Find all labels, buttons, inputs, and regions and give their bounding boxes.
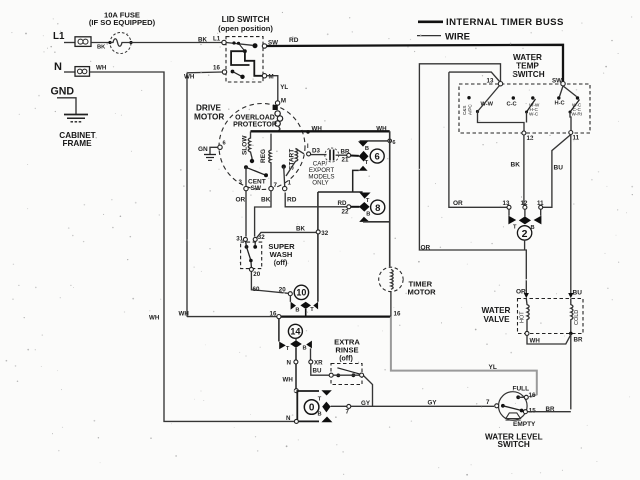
svg-text:B: B: [295, 308, 299, 314]
svg-text:WH: WH: [149, 315, 160, 322]
svg-text:(IF SO EQUIPPED): (IF SO EQUIPPED): [89, 18, 156, 27]
svg-text:60: 60: [253, 286, 260, 293]
svg-text:22: 22: [342, 209, 349, 216]
svg-text:RINSE: RINSE: [335, 346, 358, 355]
svg-text:20: 20: [253, 271, 260, 278]
svg-text:BU: BU: [573, 290, 583, 297]
svg-text:COLD: COLD: [574, 310, 580, 325]
svg-text:BR: BR: [546, 406, 555, 413]
svg-text:WH: WH: [96, 65, 107, 72]
svg-text:GY: GY: [428, 400, 438, 407]
svg-text:7: 7: [274, 182, 278, 189]
svg-text:ONLY: ONLY: [312, 180, 328, 187]
svg-text:T: T: [318, 396, 322, 402]
svg-text:YL: YL: [280, 84, 288, 91]
svg-text:12: 12: [521, 200, 528, 207]
svg-text:20: 20: [279, 287, 286, 294]
svg-text:B: B: [303, 345, 307, 351]
svg-text:11: 11: [537, 200, 544, 207]
svg-text:WH: WH: [376, 126, 387, 133]
svg-text:OVERLOAD: OVERLOAD: [235, 115, 275, 122]
svg-text:GN: GN: [198, 146, 208, 153]
svg-text:SLOW: SLOW: [242, 135, 249, 155]
svg-text:INTERNAL TIMER BUSS: INTERNAL TIMER BUSS: [446, 17, 564, 28]
svg-text:C-C: C-C: [507, 102, 517, 108]
svg-text:N: N: [54, 61, 62, 73]
svg-text:B: B: [365, 146, 369, 152]
svg-text:7: 7: [346, 409, 350, 416]
svg-text:WH: WH: [312, 125, 323, 132]
svg-text:6: 6: [375, 152, 380, 163]
svg-text:T: T: [366, 198, 370, 204]
svg-text:32: 32: [321, 230, 328, 237]
svg-text:OR: OR: [516, 289, 526, 296]
svg-text:16: 16: [394, 311, 401, 318]
svg-text:(off): (off): [274, 260, 288, 267]
svg-text:16: 16: [270, 311, 277, 318]
svg-text:OR: OR: [421, 245, 431, 252]
svg-text:T: T: [286, 346, 290, 352]
svg-text:BK: BK: [296, 226, 305, 233]
svg-text:14: 14: [290, 327, 300, 337]
svg-text:VALVE: VALVE: [483, 315, 510, 324]
svg-text:M: M: [281, 98, 286, 105]
svg-text:A/PC: A/PC: [468, 104, 473, 115]
svg-text:MOTOR: MOTOR: [194, 113, 224, 122]
svg-text:BR: BR: [574, 337, 583, 344]
svg-text:BU: BU: [313, 368, 322, 375]
svg-text:RD: RD: [338, 200, 347, 207]
svg-text:T: T: [513, 225, 517, 231]
svg-text:DRIVE: DRIVE: [196, 104, 222, 113]
svg-text:8: 8: [375, 203, 380, 214]
svg-text:N: N: [286, 415, 291, 422]
svg-text:WASH: WASH: [270, 250, 293, 259]
svg-text:0: 0: [309, 403, 315, 414]
svg-text:6: 6: [223, 141, 226, 147]
svg-text:HOT: HOT: [520, 311, 526, 323]
svg-text:16: 16: [529, 392, 536, 399]
svg-text:W-C: W-C: [529, 112, 539, 117]
svg-text:SWITCH: SWITCH: [498, 440, 530, 449]
svg-text:YL: YL: [489, 364, 497, 371]
svg-text:C&S: C&S: [462, 106, 467, 115]
svg-text:3: 3: [239, 179, 243, 186]
svg-text:(off): (off): [339, 356, 353, 363]
svg-text:7: 7: [486, 399, 490, 406]
svg-text:T: T: [310, 307, 314, 313]
svg-text:M: M: [269, 74, 274, 81]
svg-text:T: T: [365, 160, 369, 166]
svg-text:WIRE: WIRE: [445, 31, 471, 42]
svg-text:OR: OR: [453, 200, 463, 207]
svg-text:13: 13: [503, 200, 510, 207]
svg-text:WH: WH: [184, 74, 195, 81]
svg-text:BK: BK: [261, 197, 271, 204]
svg-text:RD: RD: [287, 197, 297, 204]
svg-text:MOTOR: MOTOR: [408, 288, 437, 297]
svg-text:XR: XR: [314, 360, 323, 367]
svg-text:EMPTY: EMPTY: [513, 421, 536, 428]
svg-text:31: 31: [236, 236, 243, 243]
svg-text:BK: BK: [97, 45, 106, 51]
svg-text:OR: OR: [236, 197, 246, 204]
svg-text:12: 12: [527, 135, 534, 142]
svg-text:WH: WH: [283, 377, 294, 384]
svg-text:LID SWITCH: LID SWITCH: [222, 15, 270, 24]
svg-text:2: 2: [522, 228, 528, 240]
svg-text:10: 10: [296, 288, 306, 298]
svg-text:16: 16: [213, 65, 220, 72]
svg-text:BU: BU: [554, 165, 564, 172]
svg-text:BK: BK: [198, 37, 207, 44]
svg-text:B: B: [318, 412, 322, 418]
svg-text:L1: L1: [53, 31, 65, 42]
svg-text:1: 1: [288, 180, 292, 187]
svg-text:REG: REG: [260, 149, 267, 163]
svg-text:BK: BK: [511, 162, 521, 169]
svg-text:6: 6: [392, 140, 395, 146]
svg-text:FRAME: FRAME: [62, 139, 92, 148]
svg-text:D3: D3: [312, 147, 320, 154]
svg-text:N: N: [287, 360, 292, 367]
svg-text:WATER: WATER: [482, 306, 511, 315]
svg-text:L1: L1: [213, 36, 221, 43]
svg-text:B: B: [366, 212, 370, 218]
svg-text:SW: SW: [251, 185, 262, 192]
svg-text:PROTECTOR: PROTECTOR: [233, 122, 277, 129]
svg-text:SWITCH: SWITCH: [512, 70, 544, 79]
svg-text:(open position): (open position): [218, 24, 273, 33]
svg-text:W-RI: W-RI: [572, 112, 583, 117]
svg-text:13: 13: [487, 78, 494, 85]
svg-text:WH: WH: [179, 311, 190, 318]
svg-text:GY: GY: [361, 400, 371, 407]
svg-text:15: 15: [529, 408, 536, 415]
svg-text:RD: RD: [289, 37, 299, 44]
svg-text:FULL: FULL: [513, 386, 530, 393]
svg-text:H-C: H-C: [555, 101, 565, 107]
svg-text:GND: GND: [51, 86, 75, 98]
